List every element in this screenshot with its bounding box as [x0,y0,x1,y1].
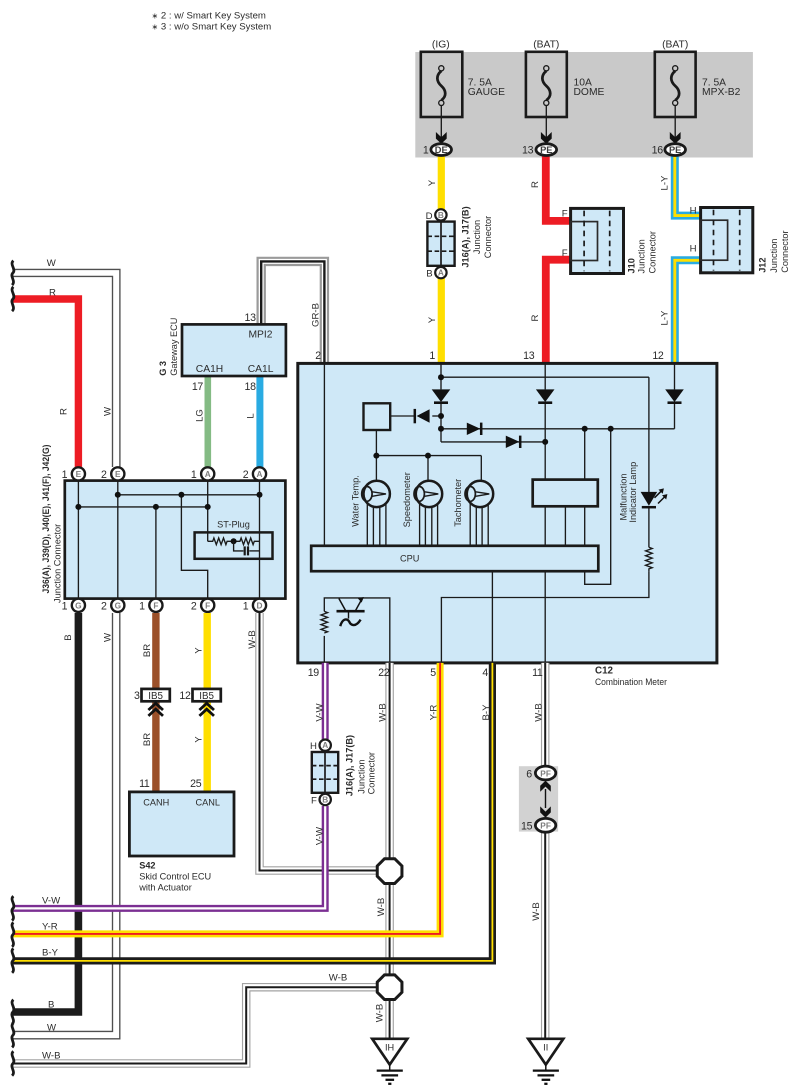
LED rail down [648,377,650,492]
power-rail gray band [415,52,753,158]
wire W-B (D1 to splice) [260,613,378,871]
pin 4 column [491,571,493,663]
svg-text:W-B: W-B [375,1004,386,1022]
sensor square [364,403,391,430]
transistor rail [323,636,325,663]
svg-text:2: 2 [101,601,107,613]
svg-text:1: 1 [62,469,68,481]
wire E2-G2 column [117,481,119,599]
svg-text:12: 12 [179,690,191,702]
gauge water temp [364,481,390,507]
svg-text:GR-B: GR-B [311,303,322,327]
wire R left [13,299,78,467]
svg-text:F: F [153,600,158,610]
svg-text:A: A [438,268,444,278]
svg-text:1: 1 [62,601,68,613]
svg-text:IH: IH [385,1043,394,1053]
fuse F2 element 10A DOME [542,71,550,100]
left diode branch [390,415,414,417]
wire W-B pin22 to grounds [385,663,394,1040]
wire V-W pin19 [13,663,325,909]
frayed end W-B [12,1051,14,1075]
svg-text:∗ 2 : w/ Smart Key System: ∗ 2 : w/ Smart Key System [152,11,266,22]
svg-text:16: 16 [652,144,664,156]
svg-text:MPI2: MPI2 [248,330,272,341]
pin circles bottom [62,599,266,613]
pin 11 column [544,571,546,663]
IB5 connector 3 [142,689,170,701]
svg-text:H: H [690,205,697,216]
S42 skid control ECU box [129,792,234,856]
malfunction indicator lamp LED [641,492,658,506]
ground II [528,1039,563,1065]
svg-text:BR: BR [142,644,153,657]
square bottom link [375,430,377,456]
diode D-pin12 [665,389,684,402]
ground IH [372,1039,407,1065]
wire F1 column [155,507,157,599]
diode D-pin1 [432,389,451,402]
svg-text:V-W: V-W [314,826,325,845]
svg-text:Gateway ECU: Gateway ECU [169,318,179,376]
wire Y (IG feed, pin 1) [438,155,445,364]
svg-text:Y: Y [194,736,205,743]
svg-text:B: B [438,210,444,220]
arrow down PF15 [540,806,551,817]
svg-text:13: 13 [523,350,535,362]
frayed end V-W [12,896,14,920]
svg-text:PF: PF [540,768,551,778]
svg-text:PF: PF [540,821,551,831]
svg-text:Skid Control ECU: Skid Control ECU [139,872,211,882]
svg-text:F: F [562,209,568,220]
svg-text:MPX-B2: MPX-B2 [702,87,741,98]
wire Y (F2 to IB5 to S42 CANL) [204,613,211,689]
svg-text:CA1H: CA1H [196,364,223,375]
diode rail upper [441,428,675,430]
svg-text:G 3: G 3 [158,361,168,376]
svg-text:Y: Y [427,179,438,186]
junction dots [115,492,121,498]
svg-text:Connector: Connector [366,752,376,794]
gauge harness WT [366,494,368,546]
svg-text:CA1L: CA1L [248,364,274,375]
svg-text:J16(A), J17(B): J16(A), J17(B) [345,735,355,796]
svg-text:W-B: W-B [531,902,542,920]
arrow to pin 1 DE [436,132,447,144]
CPU box [311,546,598,571]
svg-text:Junction: Junction [769,239,779,273]
svg-text:6: 6 [526,768,532,780]
svg-text:DE: DE [435,145,448,155]
svg-text:IB5: IB5 [148,691,163,702]
pin 12 column [674,363,676,389]
wire E1-G1 column [77,481,79,599]
wire A1 column [207,481,209,542]
pin 1 column [440,363,442,389]
gauge harness TA [469,494,471,546]
svg-text:CANH: CANH [143,797,169,807]
wire to F2 [181,495,207,599]
svg-text:V-W: V-W [314,702,325,721]
gauge harness SP [419,494,421,546]
svg-text:L-Y: L-Y [659,175,670,191]
diode D-pin13 [536,389,555,402]
node dots meter [438,374,444,380]
svg-text:5: 5 [430,667,436,679]
svg-text:Y-R: Y-R [42,922,58,933]
wire A2-D column [259,481,261,599]
IB5 connector 12 [193,689,221,701]
feedback drop [585,429,611,585]
resistor left [208,538,234,545]
svg-text:2: 2 [191,601,197,613]
junction connector J16(A)/J17(B) top [427,222,454,266]
svg-text:25: 25 [190,778,202,790]
wire W (G2 to left edge) [13,613,120,1039]
svg-text:B: B [426,269,432,280]
svg-text:W: W [47,1023,57,1034]
svg-text:22: 22 [378,667,390,679]
svg-text:LG: LG [195,409,206,422]
junction connector J36/J39/J40/J41/J42 box [65,481,286,599]
diode right-point upper [467,423,481,435]
svg-text:Indicator Lamp: Indicator Lamp [628,462,638,523]
fuse F3 element 7.5A MPX-B2 [671,71,679,100]
svg-text:B: B [322,795,328,805]
svg-text:15: 15 [521,821,533,833]
svg-text:W-B: W-B [329,972,347,983]
svg-text:18: 18 [245,381,257,393]
svg-text:2: 2 [101,469,107,481]
frayed end W [12,1023,14,1047]
svg-text:17: 17 [192,381,204,393]
svg-text:PE: PE [540,145,552,155]
svg-text:Junction: Junction [356,759,366,793]
gauge tachometer [467,481,493,507]
svg-text:D: D [257,600,263,610]
svg-text:B: B [63,634,74,640]
svg-text:1: 1 [243,601,249,613]
svg-text:Malfunction: Malfunction [618,474,628,521]
svg-text:13: 13 [522,144,534,156]
svg-text:F: F [205,600,210,610]
svg-text:W: W [103,406,114,416]
resistor right [234,538,260,545]
svg-text:Y: Y [427,316,438,323]
svg-text:H: H [310,741,317,752]
svg-text:1: 1 [423,144,429,156]
wire B-Y pin4 [13,663,492,961]
svg-text:J12: J12 [757,257,767,272]
fuse F2 contact top [544,66,549,71]
junction connector J12 [701,208,753,273]
svg-text:Junction: Junction [637,239,647,273]
svg-text:1: 1 [191,469,197,481]
svg-text:V-W: V-W [42,896,61,907]
connector pin 6 PF [535,766,555,780]
svg-text:GAUGE: GAUGE [468,87,505,98]
connector pin 16 PE [665,144,686,156]
svg-text:1: 1 [139,601,145,613]
driver box [533,480,598,507]
svg-text:Speedometer: Speedometer [402,472,412,527]
LED cathode rail [648,508,650,548]
svg-text:W-B: W-B [42,1051,60,1062]
svg-text:W-B: W-B [376,898,387,916]
driver drop from rail [584,429,586,480]
wire W-B pin11 to ground II [541,663,550,1040]
svg-text:2: 2 [243,469,249,481]
frayed end W [12,261,14,285]
wire L [256,376,263,468]
diode right-point lower [506,436,520,448]
svg-text:F: F [311,796,317,807]
bus line upper [118,494,260,496]
svg-text:B-Y: B-Y [42,948,59,959]
svg-text:C12: C12 [595,665,614,676]
svg-text:CANL: CANL [196,797,221,807]
svg-text:Water Temp.: Water Temp. [350,475,360,527]
svg-text:11: 11 [532,667,543,679]
svg-text:E: E [76,469,82,479]
svg-text:R: R [49,288,56,299]
svg-text:(BAT): (BAT) [533,40,559,51]
transistor resistor [321,611,328,633]
svg-text:Combination Meter: Combination Meter [595,677,668,688]
svg-text:Y: Y [194,647,205,654]
arrow to pin 13 PE [541,132,552,144]
LED resistor [646,547,653,571]
pin 13 column [544,363,546,389]
splice octagon 2 [377,975,402,1000]
diode rail lower [441,441,545,443]
wire R (BAT feed, pin 13) [546,155,572,221]
svg-text:G: G [75,600,81,610]
arrow up PF6 [540,781,551,792]
svg-text:W-B: W-B [247,630,258,648]
svg-text:2: 2 [315,350,321,362]
svg-text:Connector: Connector [483,216,493,258]
wire L-Y (BAT feed, pin 12) [675,155,702,364]
svg-text:S42: S42 [139,861,155,871]
wire B (G1 to left edge) [13,613,78,1012]
junction connector J16(A)/J17(B) bottom [312,752,338,793]
frayed end Y-R [12,922,14,946]
diode left-point [417,409,430,423]
svg-text:13: 13 [245,312,257,324]
wire BR (F1 to IB5 to S42 CANH) [152,613,159,689]
svg-text:ST-Plug: ST-Plug [217,520,250,530]
fuse F3 contact top [673,66,678,71]
wire W left top [13,269,120,467]
connector PF gray box [519,766,558,831]
capacitor [234,541,244,551]
svg-text:A: A [205,469,211,479]
svg-text:Tachometer: Tachometer [453,479,463,527]
svg-text:∗ 3 : w/o Smart Key System: ∗ 3 : w/o Smart Key System [152,22,272,33]
svg-text:W-B: W-B [533,703,544,721]
svg-text:B-Y: B-Y [481,704,492,721]
svg-text:A: A [322,740,328,750]
svg-text:3: 3 [134,690,140,702]
connector pin 15 PF [535,818,555,832]
svg-text:Y-R: Y-R [428,705,439,721]
gauge speedometer [416,481,442,507]
svg-text:(BAT): (BAT) [662,40,688,51]
pin circles top [62,467,266,481]
svg-text:R: R [530,314,541,321]
driver to CPU links [544,506,546,546]
svg-text:J36(A), J39(D), J40(E), J41(F): J36(A), J39(D), J40(E), J41(F), J42(G) [41,445,51,594]
svg-text:12: 12 [652,350,664,362]
frayed end R [12,287,14,311]
svg-text:with Actuator: with Actuator [138,883,192,893]
bus line lower [78,506,207,508]
svg-text:B: B [48,1000,54,1011]
svg-text:R: R [59,408,70,415]
fuse F1 element 7.5A GAUGE [437,71,445,100]
pin 2 column [323,363,325,545]
node to LED rail [441,376,649,378]
svg-text:L-Y: L-Y [659,310,670,326]
svg-text:CPU: CPU [400,554,419,564]
svg-text:IB5: IB5 [199,691,214,702]
svg-text:Junction Connector: Junction Connector [52,524,62,603]
wire GR-B (gateway MPI2 to meter pin 2) [261,261,324,364]
frayed end B-Y [12,948,14,972]
svg-text:L: L [246,413,257,419]
gauge feeds [375,456,377,485]
svg-text:J10: J10 [627,258,637,273]
svg-text:E: E [115,469,121,479]
gauge rail [376,455,481,457]
svg-text:BR: BR [142,733,153,746]
svg-text:19: 19 [308,667,320,679]
svg-text:F: F [562,248,568,259]
svg-text:D: D [426,211,433,222]
splice octagon 1 [377,859,402,884]
svg-text:4: 4 [482,667,488,679]
svg-text:A: A [257,469,263,479]
svg-text:Connector: Connector [648,231,658,273]
connector pin 1 DE [431,144,452,156]
zener wave [340,619,360,626]
wire LG [205,376,212,468]
svg-text:W: W [47,258,57,269]
wire W-B splice2 to left edge [13,987,377,1063]
svg-text:G: G [115,600,121,610]
svg-text:W: W [102,632,113,642]
fuse F1 contact top [439,66,444,71]
gateway ECU G3 box [182,324,286,376]
svg-text:W-B: W-B [377,703,388,721]
frayed end B [12,1000,14,1024]
svg-text:J16(A), J17(B): J16(A), J17(B) [461,206,471,267]
wire Y-R pin5 [13,663,440,934]
arrow to pin 16 PE [670,132,681,144]
svg-text:Connector: Connector [780,230,790,272]
svg-text:11: 11 [139,778,150,790]
svg-text:Junction: Junction [472,220,482,254]
svg-text:1: 1 [429,350,435,362]
svg-text:(IG): (IG) [432,40,450,51]
svg-text:PE: PE [669,145,681,155]
junction connector J10 [571,208,624,273]
transistor Q [337,610,365,613]
svg-text:II: II [543,1043,548,1053]
svg-text:DOME: DOME [574,87,605,98]
connector pin 13 PE [536,144,557,156]
svg-text:H: H [690,243,697,254]
svg-text:R: R [530,181,541,188]
combination meter C12 box [298,363,717,663]
